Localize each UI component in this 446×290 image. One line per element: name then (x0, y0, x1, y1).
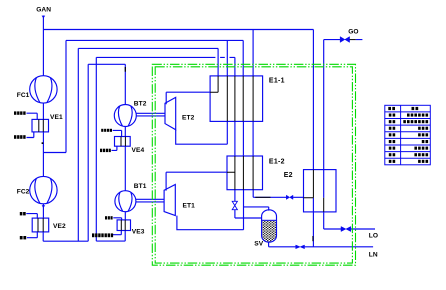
filter VE1 (32, 119, 49, 131)
wire bus C : from x=78.3 riser to E1-1 (78, 48, 218, 241)
wire SV top feed tee (244, 207, 269, 211)
turbine ET2 (165, 97, 176, 129)
wire FC1 to VE1 (42, 103, 44, 119)
label tiny purge text VE2 top (20, 212, 26, 215)
black overlay segment on BT2 drop (124, 67, 126, 72)
parts list table (385, 105, 431, 165)
flow arrow FC2 outlet (42, 205, 45, 208)
label tiny purge text VE1 top (14, 111, 26, 114)
svg-text:VE1: VE1 (50, 114, 63, 121)
compressor FC1 (30, 76, 57, 103)
filter VE3 (117, 220, 130, 231)
flow arrow on GAN stem (42, 16, 46, 19)
svg-text:BT2: BT2 (134, 101, 147, 108)
label tiny purge text VE2 bottom (20, 236, 26, 239)
label tiny purge text VE4 bottom (100, 149, 111, 152)
wire VE4 to BT1 (124, 146, 126, 191)
cold box boundary inner (155, 67, 352, 263)
wire bus E : FC2 discharge over to BT2 suction (88, 64, 125, 241)
filter VE4 (115, 137, 131, 147)
booster BT2 (114, 105, 136, 127)
wire bus A : GAN header to E2 riser (43, 29, 313, 31)
heat exchanger E1-1 (210, 76, 263, 122)
svg-text:LO: LO (369, 233, 378, 240)
valve V-GO (340, 37, 349, 43)
svg-text:SV: SV (254, 241, 263, 248)
black overlay segment on LN drop (312, 236, 314, 241)
svg-text:E2: E2 (284, 172, 293, 179)
wire VE1 to FC2 (42, 132, 44, 176)
wire VE4 purge elbows (112, 130, 122, 150)
wire shaft BT1-ET1 (136, 199, 164, 202)
label tiny purge text VE4 top (101, 129, 112, 132)
valve V-LN (296, 245, 305, 249)
wire bus A riser down to E2 (312, 30, 314, 170)
wire FC2 to VE2 (42, 204, 44, 218)
wire ET1 outlet to E1-2 bottom (177, 190, 244, 230)
wire VE2 bottom run to bus E riser (43, 232, 88, 241)
wire VE1 purge elbows (27, 113, 38, 137)
valve V-LO (341, 227, 351, 232)
wire branch VE1 outlet to bus B riser (43, 40, 66, 152)
svg-text:GO: GO (348, 28, 358, 35)
node GAN feed stem (42, 16, 44, 76)
wire GO product line (324, 39, 363, 41)
wire GO riser from E2 top (323, 40, 325, 198)
valve JT vertical (232, 201, 237, 209)
wire E1-2 to JT valve to SV side (235, 190, 262, 218)
svg-text:E1-2: E1-2 (269, 159, 285, 166)
wire drop from bus A into E1-1 at x=253 (252, 30, 254, 76)
label tiny purge text VE1 bottom (14, 135, 26, 139)
svg-text:VE3: VE3 (132, 228, 145, 235)
heat exchanger E1-2 (227, 156, 263, 190)
svg-text:GAN: GAN (36, 7, 51, 14)
wire LN product line from SV bottom (269, 242, 374, 247)
turbine ET1 (164, 185, 175, 216)
wire E2 bottom to LO line (324, 212, 375, 229)
wire bus B : from x=66 riser to E1-1 (66, 40, 243, 76)
svg-text:ET1: ET1 (183, 203, 196, 210)
wire E2 bottom to LN junction (312, 198, 314, 247)
svg-text:BT1: BT1 (134, 183, 147, 190)
wire VE2 purge elbows (26, 214, 37, 238)
black overlay segment on E2 feed line (255, 196, 270, 198)
wire E1-1 to E1-2 passes (235, 121, 253, 156)
wire E1-2 to E2 feed line (253, 190, 303, 198)
svg-text:VE4: VE4 (132, 147, 145, 154)
wire bus D : from x=96.3 riser to E1-1 with break (96, 57, 235, 241)
cold box boundary outer (152, 64, 355, 265)
compressor FC2 (30, 176, 57, 203)
wire ET1 inlet from E1-2 left (166, 172, 227, 190)
black tick on main line below VE1 (42, 142, 44, 144)
svg-text:VE2: VE2 (53, 223, 66, 230)
booster BT1 (115, 191, 136, 212)
label tiny purge text VE3 bottom (92, 233, 113, 237)
filter VE2 (32, 218, 49, 232)
wire VE3 drain run to bus D riser (96, 231, 125, 242)
valve V-E2feed (286, 195, 293, 199)
svg-text:FC1: FC1 (17, 92, 30, 99)
wire ET2 inlet from E1-1 left (166, 92, 210, 104)
svg-text:E1-1: E1-1 (269, 77, 285, 84)
wire BT1 to VE3 (124, 212, 126, 220)
svg-text:LN: LN (369, 252, 378, 259)
wire shaft BT2-ET2 (136, 113, 165, 116)
svg-text:FC2: FC2 (17, 188, 30, 195)
wire ET2 outlet to E1-1 bottom (176, 121, 228, 144)
wire BT2 to VE4 (124, 127, 126, 137)
separator SV (262, 210, 277, 242)
svg-text:ET2: ET2 (182, 115, 195, 122)
black overlay segment after GO valve (350, 39, 356, 41)
wire VE3 purge elbows (113, 218, 122, 235)
heat exchanger E2 (304, 170, 337, 212)
label tiny purge text VE3 top (105, 216, 113, 219)
